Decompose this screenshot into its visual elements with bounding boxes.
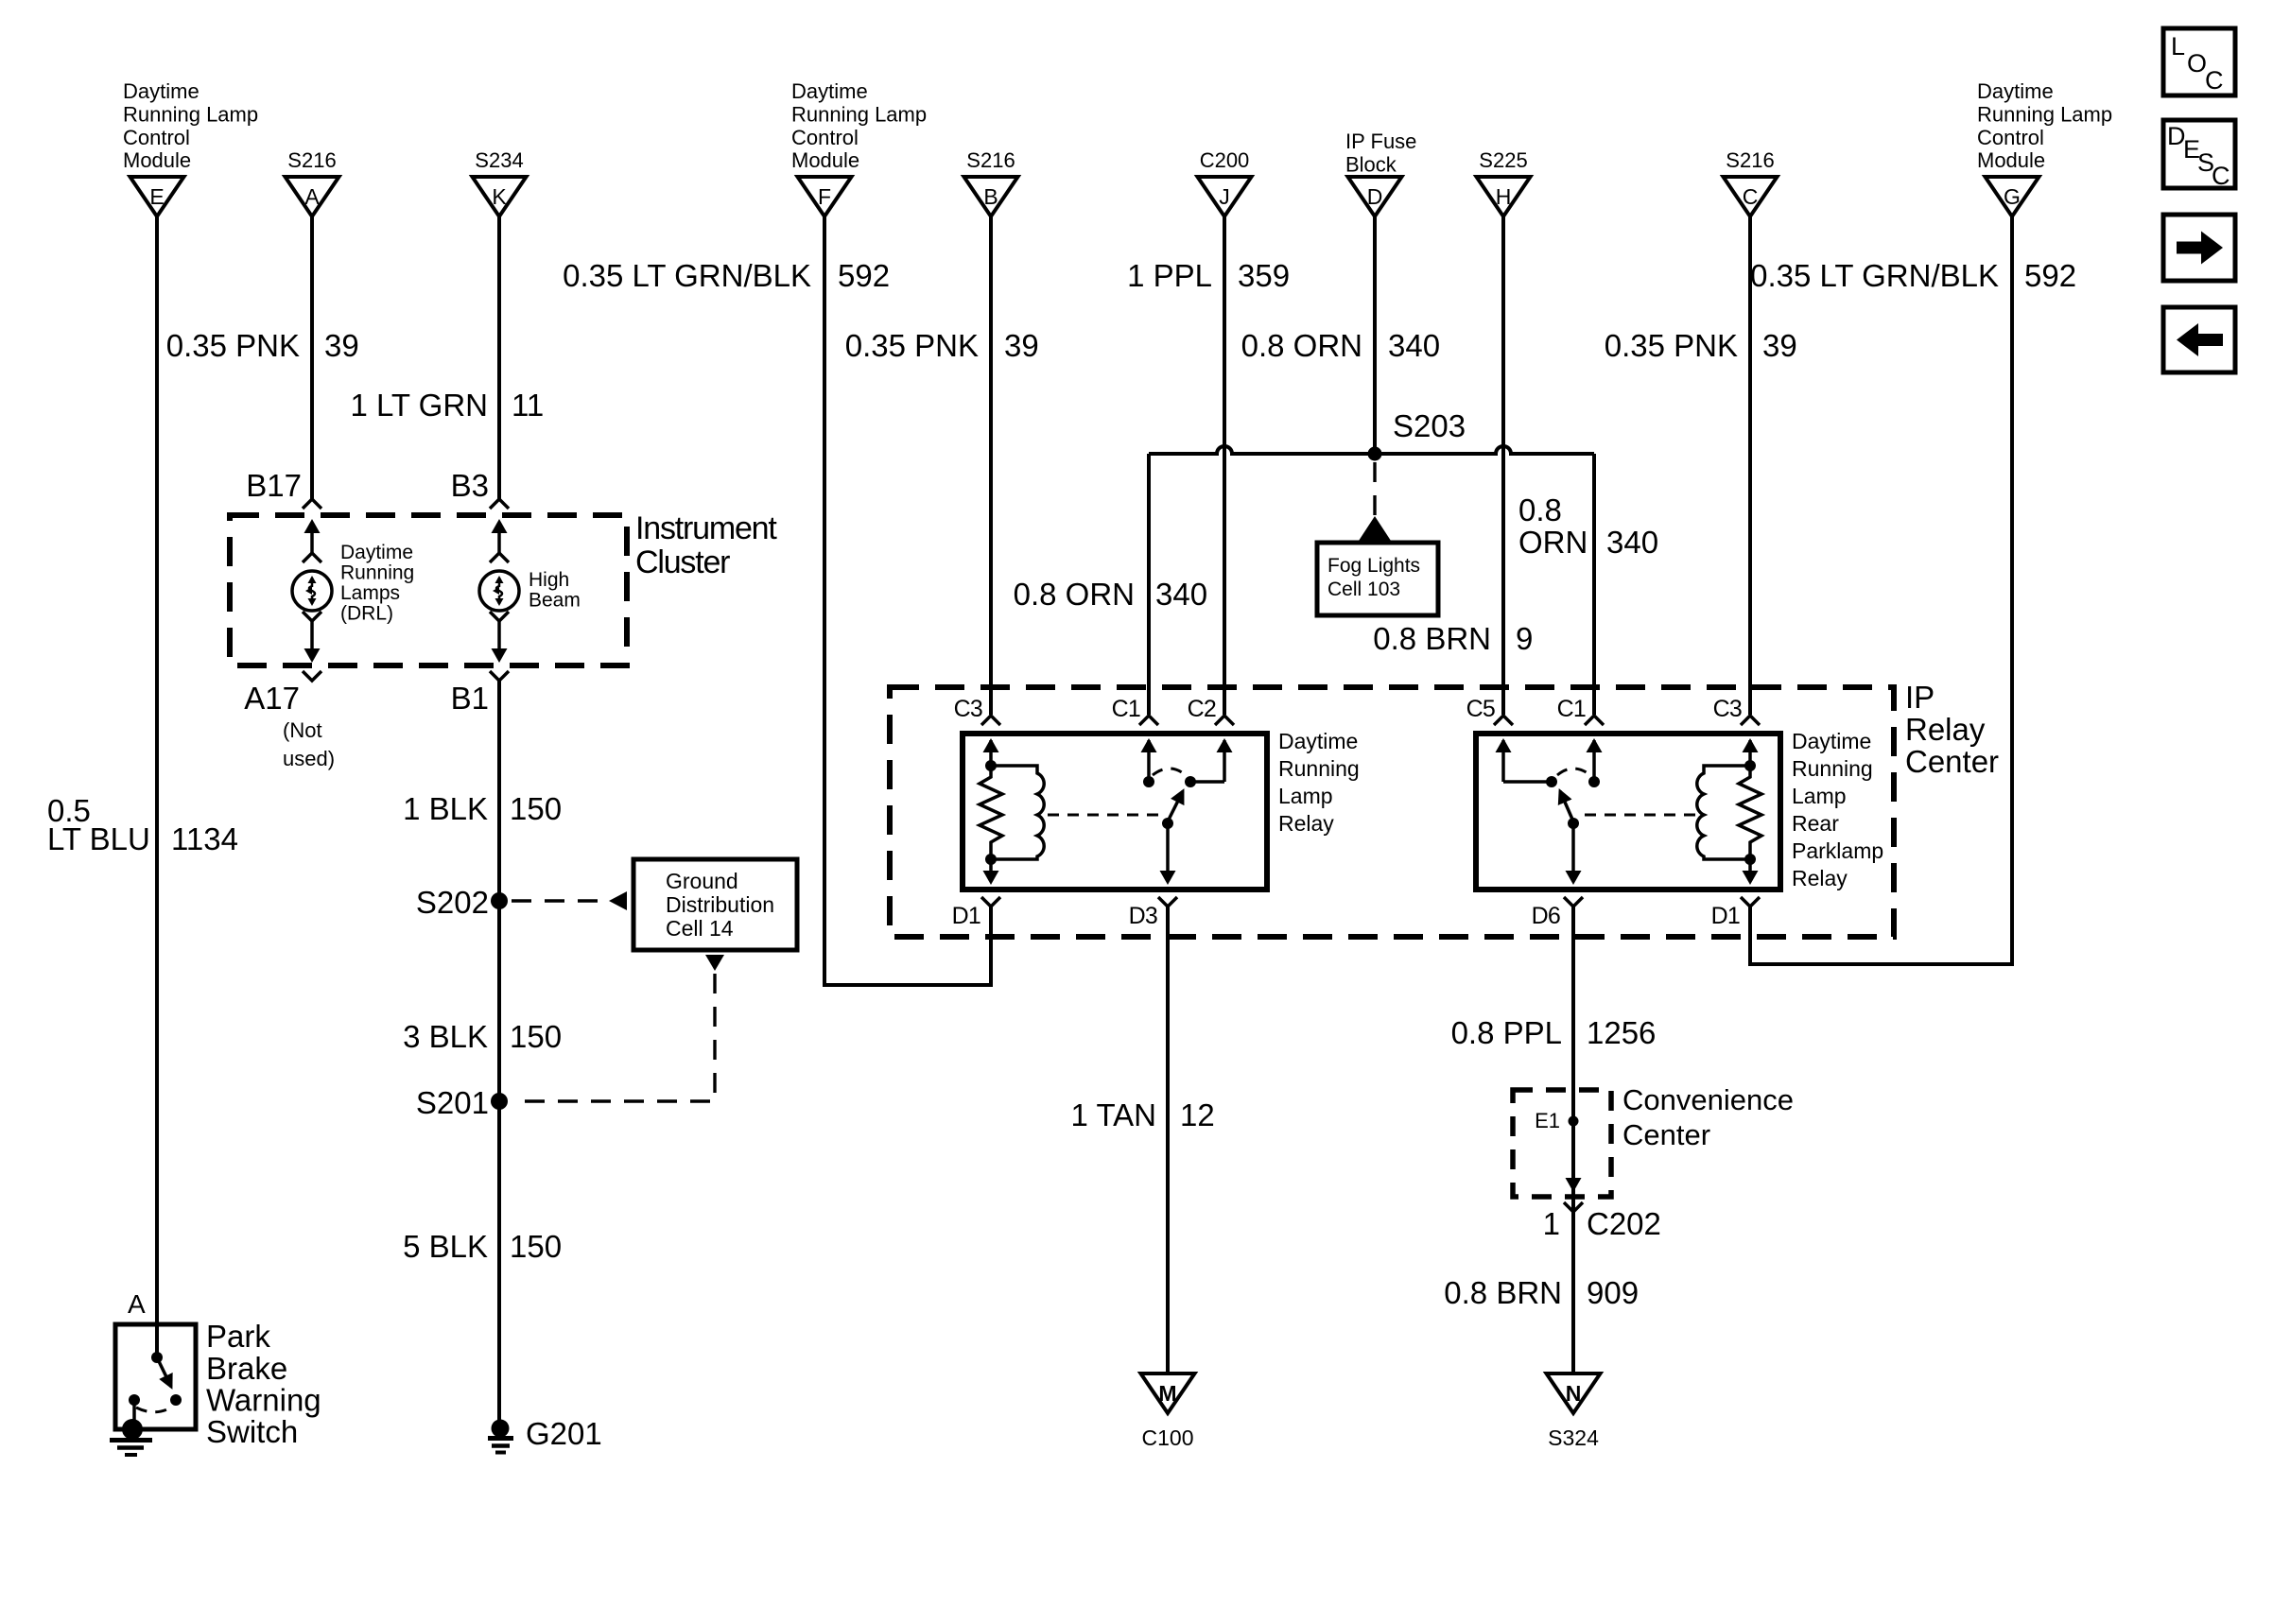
pin C3 chevron (right relay) <box>1741 716 1760 725</box>
svg-text:1 TAN: 1 TAN <box>1071 1097 1156 1132</box>
svg-text:S201: S201 <box>416 1085 489 1120</box>
svg-text:C: C <box>2205 66 2224 95</box>
svg-text:Brake: Brake <box>206 1351 287 1386</box>
svg-text:B: B <box>983 184 998 209</box>
pin D1 chevron (right relay) <box>1741 897 1760 907</box>
svg-text:Lamp: Lamp <box>1278 784 1333 808</box>
pin B17 connector chevron <box>303 499 321 509</box>
dashed reference wire S203 to Fog Lights <box>1373 462 1376 515</box>
svg-text:C1: C1 <box>1557 696 1586 722</box>
svg-text:1256: 1256 <box>1587 1015 1656 1050</box>
connector triangle C (S216) <box>1724 177 1778 216</box>
svg-text:909: 909 <box>1587 1275 1639 1310</box>
svg-text:0.35 PNK: 0.35 PNK <box>845 328 979 363</box>
svg-text:0.35 LT GRN/BLK: 0.35 LT GRN/BLK <box>1750 258 1999 293</box>
pin C1 arrow into relay and wire to contact <box>1141 738 1157 782</box>
relay actuation dashed link (right relay) <box>1585 814 1696 817</box>
svg-text:Daytime: Daytime <box>791 79 868 103</box>
svg-text:M: M <box>1158 1381 1176 1406</box>
svg-text:Cell 103: Cell 103 <box>1327 579 1400 600</box>
connector triangle F (Daytime Running Lamp Control Module) <box>798 177 852 216</box>
label Park Brake Warning Switch <box>206 1319 321 1449</box>
svg-text:Module: Module <box>1977 148 2045 172</box>
svg-text:0.35 LT GRN/BLK: 0.35 LT GRN/BLK <box>563 258 811 293</box>
svg-text:592: 592 <box>2024 258 2076 293</box>
wire label 0.8 BRN | 9 (H) <box>1373 621 1533 656</box>
wire H vertical (S225 to relay C5) <box>1501 216 1505 715</box>
wire label 1 LT GRN | 11 (K) <box>351 388 545 423</box>
svg-text:Relay: Relay <box>1905 712 1986 747</box>
indicator lamp: High Beam <box>479 571 519 611</box>
svg-text:Park: Park <box>206 1319 270 1354</box>
svg-text:Ground: Ground <box>666 869 738 893</box>
connector triangle E (Daytime Running Lamp Control Module) <box>130 177 184 216</box>
wire K vertical (1 LT GRN 11) <box>497 216 501 499</box>
pin B1 connector chevron <box>490 671 509 681</box>
svg-text:39: 39 <box>1762 328 1797 363</box>
svg-text:G201: G201 <box>526 1416 602 1451</box>
DRL lamp input arrow (inside cluster, left) <box>304 519 321 553</box>
label: Daytime Running Lamp Control Module (G) <box>1977 79 2112 172</box>
svg-text:Running: Running <box>1792 756 1873 781</box>
svg-text:5 BLK: 5 BLK <box>403 1229 488 1264</box>
left-arrow reference box <box>2163 307 2235 372</box>
reference arrow (down-pointing) below Ground Distribution box <box>705 955 724 971</box>
relay coil top node (left relay) <box>985 760 997 771</box>
coil (right relay) <box>1697 766 1750 859</box>
park brake switch wire to ground <box>132 1400 136 1423</box>
pin B3 connector chevron <box>490 499 509 509</box>
pin C2 arrow into relay and wire to switch pivot <box>1190 738 1233 782</box>
svg-text:K: K <box>492 184 507 209</box>
LOC reference box <box>2163 28 2235 95</box>
svg-text:S225: S225 <box>1479 148 1527 172</box>
svg-text:Control: Control <box>791 126 859 149</box>
svg-text:0.35 PNK: 0.35 PNK <box>1605 328 1738 363</box>
svg-text:ORN: ORN <box>1518 525 1588 560</box>
DRL lamp output arrow (to A17) <box>304 621 321 663</box>
svg-text:N: N <box>1566 1381 1582 1406</box>
wire coil to D1 with arrow (right relay) <box>1743 859 1759 885</box>
reference arrow (left-pointing) at Ground Distribution box <box>609 891 627 910</box>
DRL lamp bottom terminal chevron <box>303 612 321 621</box>
wire D6 down to S324 (0.8 PPL 1256 / 0.8 BRN 909) <box>1571 906 1575 1373</box>
DRL lamp top terminal chevron <box>303 553 321 562</box>
svg-text:C100: C100 <box>1142 1425 1194 1450</box>
svg-text:C5: C5 <box>1466 696 1495 722</box>
svg-text:0.8: 0.8 <box>1518 492 1562 527</box>
arrow down inside Convenience Center <box>1566 1178 1582 1192</box>
svg-text:12: 12 <box>1180 1097 1215 1132</box>
splice S202 node <box>491 892 508 909</box>
svg-text:Convenience: Convenience <box>1622 1083 1794 1116</box>
wire label 0.35 PNK | 39 (B) <box>845 328 1039 363</box>
svg-text:Beam: Beam <box>529 590 581 612</box>
switch pivot node (right relay) <box>1546 776 1557 787</box>
svg-text:9: 9 <box>1516 621 1533 656</box>
park brake switch upper contact node <box>151 1352 163 1363</box>
splice wire S203 horizontal with hops over J and H <box>1149 446 1594 454</box>
svg-text:D1: D1 <box>1711 903 1740 929</box>
IP Relay Center dashed box <box>890 687 1894 937</box>
svg-text:Instrument: Instrument <box>635 510 777 546</box>
svg-text:D6: D6 <box>1532 903 1560 929</box>
svg-text:A17: A17 <box>244 681 300 716</box>
svg-text:E1: E1 <box>1535 1109 1560 1132</box>
label Daytime Running Lamp Relay <box>1278 729 1360 836</box>
Convenience Center dashed box <box>1513 1090 1611 1197</box>
ground G201 symbol <box>488 1420 513 1453</box>
indicator lamp: Daytime Running Lamps (DRL) <box>292 571 332 611</box>
svg-text:E: E <box>149 184 164 209</box>
wire label 0.35 PNK | 39 (A) <box>166 328 359 363</box>
pin C5 chevron <box>1494 716 1513 725</box>
switch dashed arc (right relay) <box>1557 769 1590 775</box>
svg-text:Running Lamp: Running Lamp <box>123 103 258 127</box>
wire label 1 PPL | 359 (J) <box>1127 258 1290 293</box>
resistor (left relay) <box>980 766 1002 859</box>
pin C5 arrow into relay and wire to contact <box>1496 738 1553 782</box>
switch blade bottom node (right relay) <box>1568 818 1579 829</box>
svg-text:Relay: Relay <box>1792 866 1848 890</box>
park brake switch dashed travel arc <box>136 1407 173 1412</box>
dashed reference wire S201 to Ground Distribution <box>513 974 715 1101</box>
switch contact node C1 side (left relay) <box>1143 776 1154 787</box>
dashed reference wire S202 to Ground Distribution <box>512 899 607 902</box>
svg-text:O: O <box>2187 49 2207 78</box>
wire B1 to G201 (1 BLK / 3 BLK / 5 BLK 150) <box>497 680 501 1421</box>
svg-text:0.8 BRN: 0.8 BRN <box>1444 1275 1562 1310</box>
wire label 0.8 ORN | 340 (D) <box>1241 328 1440 363</box>
svg-text:Running: Running <box>340 562 414 584</box>
pin A17 connector chevron <box>303 671 321 681</box>
svg-text:C2: C2 <box>1188 696 1216 722</box>
svg-text:D1: D1 <box>952 903 980 929</box>
svg-text:Parklamp: Parklamp <box>1792 838 1883 863</box>
wire D vertical (0.8 ORN 340) <box>1373 216 1377 454</box>
connector triangle M (C100) <box>1141 1373 1195 1413</box>
wire F vertical (0.35 LT GRN/BLK 592) <box>823 216 826 987</box>
relay: Daytime Running Lamp Relay box <box>963 734 1267 890</box>
pin C1 arrow into relay and wire to contact (right relay) <box>1587 738 1603 782</box>
svg-text:F: F <box>818 184 831 209</box>
wire relay D1 down to F horizontal <box>989 906 993 987</box>
connector triangle H (S225) <box>1477 177 1531 216</box>
wire relay D1 (right) down and right to G <box>1750 906 2014 964</box>
high beam input arrow (inside cluster, right) <box>492 519 508 553</box>
svg-text:3 BLK: 3 BLK <box>403 1019 488 1054</box>
svg-text:592: 592 <box>838 258 890 293</box>
connector triangle D (IP Fuse Block) <box>1348 177 1402 216</box>
wire label 0.35 LT GRN/BLK | 592 (G) <box>1750 258 2076 293</box>
connector triangle A (S216) <box>286 177 339 216</box>
svg-text:Daytime: Daytime <box>1278 729 1358 753</box>
park brake switch blade <box>157 1357 171 1387</box>
svg-text:S203: S203 <box>1393 408 1466 443</box>
svg-text:150: 150 <box>510 1229 562 1264</box>
svg-text:Rear: Rear <box>1792 811 1839 836</box>
switch dashed arc (left relay) <box>1153 769 1186 775</box>
svg-text:Daytime: Daytime <box>1977 79 2054 103</box>
svg-text:C: C <box>1743 184 1759 209</box>
svg-text:H: H <box>1496 184 1512 209</box>
svg-text:Daytime: Daytime <box>340 542 413 563</box>
svg-text:C3: C3 <box>1713 696 1742 722</box>
pin C3 chevron <box>981 716 1000 725</box>
wire D3 down to C100 (1 TAN 12) <box>1166 906 1170 1373</box>
label Daytime Running Lamp Rear Parklamp Relay <box>1792 729 1883 890</box>
svg-text:L: L <box>2171 32 2185 60</box>
wire coil to D1 with arrow (left relay) <box>983 859 999 885</box>
svg-text:Cluster: Cluster <box>635 544 730 580</box>
right-arrow reference box <box>2163 215 2235 281</box>
wire label 5 BLK | 150 <box>403 1229 562 1264</box>
svg-text:LT BLU: LT BLU <box>47 821 150 856</box>
svg-text:Module: Module <box>123 148 191 172</box>
high beam lamp top terminal chevron <box>490 553 509 562</box>
pin C1 chevron (left relay) <box>1139 716 1158 725</box>
node E1 <box>1569 1116 1579 1127</box>
svg-text:1 BLK: 1 BLK <box>403 791 488 826</box>
switch blade bottom node (left relay) <box>1162 818 1173 829</box>
switch contact node C1 side (right relay) <box>1588 776 1600 787</box>
high beam lamp bottom terminal chevron <box>490 612 509 621</box>
wire label 0.8 ORN | 340 (relay C1 left) <box>1014 577 1207 612</box>
switch pivot node (left relay) <box>1185 776 1196 787</box>
wire label 1 | C202 <box>1543 1206 1661 1241</box>
relay coil bottom node (right relay) <box>1744 854 1756 865</box>
wire blade to D6 with arrow <box>1566 823 1582 885</box>
wire B vertical (0.35 PNK 39) <box>989 216 993 715</box>
pin C1 chevron (right relay) <box>1585 716 1604 725</box>
svg-text:Center: Center <box>1905 744 1999 779</box>
label: IP Fuse Block <box>1345 130 1416 177</box>
relay: Daytime Running Lamp Rear Parklamp Relay box <box>1476 734 1780 890</box>
relay actuation dashed link (left relay) <box>1048 814 1163 817</box>
svg-text:Block: Block <box>1345 153 1397 177</box>
svg-text:C: C <box>2212 162 2230 190</box>
pin label A17 (Not used) <box>244 681 335 770</box>
svg-text:11: 11 <box>512 388 544 423</box>
svg-text:S216: S216 <box>966 148 1015 172</box>
Park Brake Warning Switch box <box>115 1324 196 1429</box>
svg-text:1134: 1134 <box>171 821 238 856</box>
wire F to relay D1 horizontal <box>823 983 993 987</box>
svg-text:D3: D3 <box>1129 903 1157 929</box>
svg-text:0.8 ORN: 0.8 ORN <box>1014 577 1135 612</box>
svg-text:Control: Control <box>123 126 190 149</box>
wire J vertical (1 PPL 359) <box>1223 216 1226 715</box>
svg-text:(DRL): (DRL) <box>340 603 393 625</box>
svg-text:Control: Control <box>1977 126 2044 149</box>
wire label 0.8 BRN | 909 <box>1444 1275 1639 1310</box>
svg-text:340: 340 <box>1388 328 1440 363</box>
svg-text:(Not: (Not <box>283 718 322 742</box>
svg-text:150: 150 <box>510 791 562 826</box>
wire E vertical (0.5 LT BLU 1134) <box>155 216 159 1357</box>
svg-text:1: 1 <box>1543 1206 1560 1241</box>
svg-text:1 LT GRN: 1 LT GRN <box>351 388 489 423</box>
wire label 3 BLK | 150 <box>403 1019 562 1054</box>
svg-text:Switch: Switch <box>206 1414 298 1449</box>
wire label 0.8 / ORN | 340 (relay C1 right) <box>1518 492 1658 560</box>
label Daytime Running Lamps (DRL) <box>340 542 414 625</box>
svg-text:D: D <box>1367 184 1383 209</box>
relay coil bottom node (left relay) <box>985 854 997 865</box>
svg-text:B17: B17 <box>246 468 302 503</box>
svg-text:Running: Running <box>1278 756 1360 781</box>
splice S201 node <box>491 1093 508 1110</box>
pin C202 chevron <box>1564 1202 1583 1212</box>
svg-text:A: A <box>304 184 320 209</box>
svg-text:Daytime: Daytime <box>123 79 200 103</box>
svg-text:Distribution: Distribution <box>666 892 774 917</box>
svg-text:Running Lamp: Running Lamp <box>1977 103 2112 127</box>
wire label 0.35 LT GRN/BLK | 592 (F) <box>563 258 890 293</box>
wire G vertical (0.35 LT GRN/BLK 592) <box>2010 216 2014 966</box>
park brake switch blade end node <box>170 1394 182 1406</box>
svg-text:A: A <box>128 1289 146 1319</box>
svg-text:B3: B3 <box>451 468 489 503</box>
pin C2 chevron <box>1215 716 1234 725</box>
wire C vertical (0.35 PNK 39) <box>1748 216 1752 715</box>
wire label 0.5 LT BLU | 1134 <box>47 793 238 856</box>
svg-text:S202: S202 <box>416 885 489 920</box>
pin C3 arrow into relay <box>983 738 999 766</box>
coil (left relay) <box>991 766 1044 859</box>
DESC reference box <box>2163 120 2235 190</box>
label: Daytime Running Lamp Control Module (F) <box>791 79 927 172</box>
svg-text:G: G <box>2004 184 2021 209</box>
svg-text:Center: Center <box>1622 1118 1710 1151</box>
resistor (right relay) <box>1739 766 1761 859</box>
label High Beam <box>529 569 581 612</box>
connector triangle B (S216) <box>964 177 1018 216</box>
connector triangle N (S324) <box>1547 1373 1601 1413</box>
svg-text:Lamps: Lamps <box>340 582 400 604</box>
svg-text:B1: B1 <box>451 681 489 716</box>
pin C3 arrow into relay (right relay) <box>1743 738 1759 766</box>
svg-text:C1: C1 <box>1112 696 1140 722</box>
wire blade to D3 with arrow <box>1160 823 1176 885</box>
svg-text:C3: C3 <box>954 696 982 722</box>
svg-text:S216: S216 <box>287 148 336 172</box>
svg-text:Relay: Relay <box>1278 811 1334 836</box>
svg-text:High: High <box>529 569 569 591</box>
pin D1 chevron (left relay) <box>981 897 1000 907</box>
label Instrument Cluster <box>635 510 777 580</box>
Fog Lights Cell 103 box <box>1317 543 1438 615</box>
svg-text:Warning: Warning <box>206 1383 321 1418</box>
svg-text:39: 39 <box>1004 328 1039 363</box>
Ground Distribution Cell 14 box <box>633 859 797 950</box>
connector triangle K (S234) <box>473 177 527 216</box>
svg-text:39: 39 <box>324 328 359 363</box>
svg-text:0.8 BRN: 0.8 BRN <box>1373 621 1491 656</box>
svg-text:Lamp: Lamp <box>1792 784 1847 808</box>
svg-text:1 PPL: 1 PPL <box>1127 258 1212 293</box>
wire to relay C1 (left) vertical <box>1147 454 1151 715</box>
label Convenience Center <box>1622 1083 1794 1151</box>
wire A vertical (0.35 PNK 39) <box>310 216 314 499</box>
wire label 1 BLK | 150 <box>403 791 562 826</box>
svg-text:S324: S324 <box>1548 1425 1599 1450</box>
svg-text:IP: IP <box>1905 680 1935 715</box>
svg-text:150: 150 <box>510 1019 562 1054</box>
relay coil top node (right relay) <box>1744 760 1756 771</box>
reference arrow (up-pointing) above Fog Lights box <box>1359 516 1391 541</box>
switch blade with arrow (right relay) <box>1560 791 1573 821</box>
Instrument Cluster dashed box <box>230 515 627 665</box>
svg-text:C200: C200 <box>1200 148 1250 172</box>
svg-text:Running Lamp: Running Lamp <box>791 103 927 127</box>
svg-text:C202: C202 <box>1587 1206 1661 1241</box>
pin D6 chevron <box>1564 897 1583 907</box>
svg-text:340: 340 <box>1606 525 1658 560</box>
park brake switch ground symbol <box>110 1419 152 1455</box>
switch blade with arrow (left relay) <box>1168 791 1183 821</box>
park brake switch left contact node <box>129 1394 140 1406</box>
svg-text:Daytime: Daytime <box>1792 729 1871 753</box>
wire to relay C1 (right) vertical (0.8 ORN 340) <box>1592 454 1596 715</box>
svg-text:Module: Module <box>791 148 859 172</box>
label IP Relay Center <box>1905 680 1999 779</box>
svg-text:used): used) <box>283 747 335 770</box>
svg-text:359: 359 <box>1238 258 1290 293</box>
svg-text:0.8 ORN: 0.8 ORN <box>1241 328 1362 363</box>
svg-text:340: 340 <box>1155 577 1207 612</box>
wire label 0.35 PNK | 39 (C) <box>1605 328 1797 363</box>
svg-text:J: J <box>1219 184 1230 209</box>
high beam output arrow (to B1) <box>492 621 508 663</box>
splice S203 node <box>1368 447 1382 461</box>
svg-text:IP Fuse: IP Fuse <box>1345 130 1416 153</box>
connector triangle J (C200) <box>1198 177 1252 216</box>
svg-text:S234: S234 <box>475 148 523 172</box>
label: Daytime Running Lamp Control Module (left) <box>123 79 258 172</box>
wire label 0.8 PPL | 1256 <box>1451 1015 1657 1050</box>
svg-text:Cell 14: Cell 14 <box>666 916 734 941</box>
svg-text:0.35 PNK: 0.35 PNK <box>166 328 300 363</box>
connector triangle G (Daytime Running Lamp Control Module) <box>1986 177 2039 216</box>
wire label 1 TAN | 12 <box>1071 1097 1215 1132</box>
svg-text:S216: S216 <box>1726 148 1774 172</box>
pin D3 chevron <box>1158 897 1177 907</box>
svg-text:Fog Lights: Fog Lights <box>1327 555 1420 577</box>
svg-text:0.8 PPL: 0.8 PPL <box>1451 1015 1562 1050</box>
